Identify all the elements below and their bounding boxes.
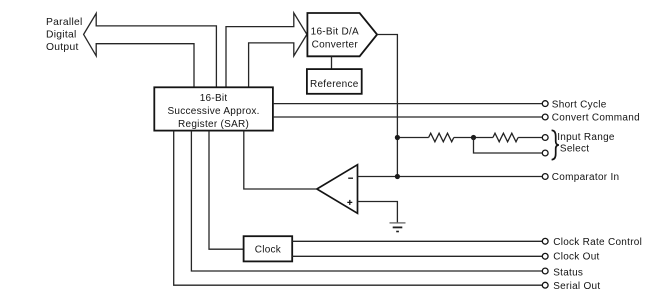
bus arrow: SAR to D/A converter (right hollow arrow) xyxy=(226,13,307,87)
wire: SAR to Status terminal xyxy=(191,131,542,271)
wire: R1 to R2 xyxy=(454,137,493,139)
terminal: Status xyxy=(542,267,583,278)
block U2: 16-Bit D/A Converter xyxy=(307,13,377,56)
svg-text:Clock Out: Clock Out xyxy=(553,252,599,263)
svg-text:Reference: Reference xyxy=(310,79,359,90)
resistor R2 xyxy=(493,133,518,142)
svg-text:Register (SAR): Register (SAR) xyxy=(178,119,249,130)
wire: SAR to Clock xyxy=(209,131,244,250)
svg-text:Output: Output xyxy=(46,42,79,53)
svg-text:Status: Status xyxy=(553,267,583,278)
wire: comparator minus input to Comparator In terminal xyxy=(358,176,543,178)
terminal: Clock Rate Control xyxy=(542,237,642,248)
svg-text:16-Bit: 16-Bit xyxy=(200,93,228,104)
bus arrow: Parallel Digital Output (left hollow arrow into SAR) xyxy=(84,13,217,87)
terminal: Input Range Select 1 xyxy=(542,135,548,141)
svg-text:Short Cycle: Short Cycle xyxy=(552,100,607,111)
svg-text:Serial Out: Serial Out xyxy=(553,281,600,292)
svg-text:Parallel: Parallel xyxy=(46,17,83,28)
block U5: Clock xyxy=(244,236,293,261)
label: Parallel Digital Output xyxy=(46,17,83,53)
svg-text:Successive Approx.: Successive Approx. xyxy=(167,106,259,117)
wire: branch from R1/R2 node to Input Range Select terminal 2 xyxy=(474,138,543,154)
wire: D/A converter to Reference xyxy=(331,56,333,69)
wire: R2 to Input Range Select terminal 1 xyxy=(518,137,542,139)
block U3: Reference xyxy=(307,69,362,94)
wire: node to resistor R1 xyxy=(397,137,428,139)
wire: SAR to Convert Command terminal xyxy=(273,116,542,118)
terminal: Serial Out xyxy=(542,281,600,292)
ground xyxy=(390,223,406,232)
terminal: Convert Command xyxy=(542,112,640,123)
terminal: Input Range Select 2 xyxy=(542,150,548,156)
label: Input Range Select with brace xyxy=(552,130,615,159)
block U1: 16-Bit Successive Approx. Register (SAR) xyxy=(154,87,273,130)
svg-text:16-Bit D/A: 16-Bit D/A xyxy=(311,27,359,38)
terminal: Short Cycle xyxy=(542,100,606,111)
svg-text:Convert Command: Convert Command xyxy=(552,112,640,123)
terminal: Comparator In xyxy=(542,172,619,183)
wire: SAR to Serial Out terminal xyxy=(174,131,543,286)
wire: Clock to Clock Rate Control terminal xyxy=(292,240,542,242)
junction: D/A output node on input-range row xyxy=(395,135,400,140)
svg-text:Digital: Digital xyxy=(46,29,77,40)
resistor R1 xyxy=(429,133,454,142)
comparator U4 xyxy=(317,165,358,214)
junction: node between R1 and R2 xyxy=(471,135,476,140)
junction: comparator input node xyxy=(395,174,400,179)
svg-text:Select: Select xyxy=(560,144,589,155)
wire: comparator output to SAR xyxy=(244,131,317,189)
svg-text:Comparator In: Comparator In xyxy=(552,172,620,183)
svg-text:Converter: Converter xyxy=(312,40,359,51)
wire: D/A output down to comparator input node xyxy=(377,35,397,177)
wire: comparator plus input to ground xyxy=(358,202,398,223)
wire: SAR to Short Cycle terminal xyxy=(273,103,542,105)
wire: Clock to Clock Out terminal xyxy=(292,255,542,257)
svg-text:Clock Rate Control: Clock Rate Control xyxy=(553,237,642,248)
svg-text:Clock: Clock xyxy=(255,245,282,256)
terminal: Clock Out xyxy=(542,252,599,263)
svg-text:Input Range: Input Range xyxy=(557,132,615,143)
